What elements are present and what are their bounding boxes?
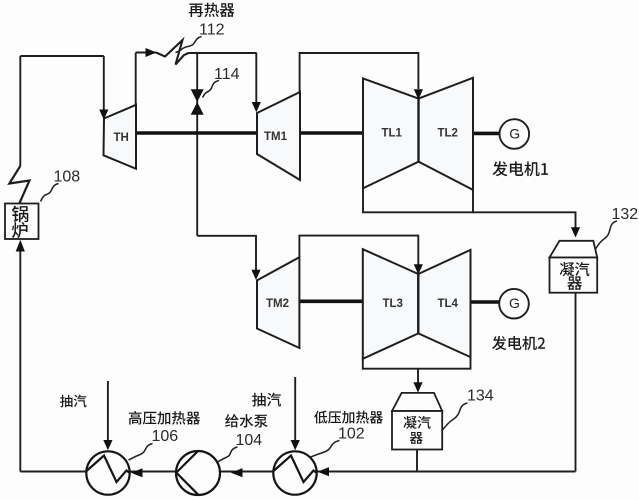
turbine TH <box>104 105 137 169</box>
turbine TM1 <box>257 92 300 180</box>
wire extraction steam arrow line right <box>294 377 296 441</box>
label 凝汽 <box>560 262 590 276</box>
leader 134 <box>443 403 468 430</box>
heater 102 zigzag <box>274 456 317 483</box>
label 再热器 <box>189 3 235 18</box>
arrow into condenser 132 <box>571 227 580 237</box>
heater 106 circle <box>86 451 129 494</box>
turbine TL4 <box>418 250 470 357</box>
svg-text:TL3: TL3 <box>383 298 403 310</box>
leader 106 <box>129 444 153 461</box>
label 凝汽 <box>404 416 431 429</box>
arrow extraction into heater 102 <box>291 440 300 450</box>
label 抽汽 <box>252 393 281 407</box>
wire left vertical from boiler riser <box>19 56 21 166</box>
arrow into TL3/TL4 waist <box>414 264 423 274</box>
leader 132 <box>596 221 618 249</box>
leader squiggles <box>41 37 618 463</box>
turbine TM2 <box>257 257 299 348</box>
svg-text:114: 114 <box>214 66 240 83</box>
heater 106 zigzag <box>87 456 130 483</box>
generator G1 circle <box>500 119 530 149</box>
turbine TL1 <box>363 78 419 188</box>
arrow extraction into heater 106 <box>103 440 112 450</box>
svg-text:G: G <box>509 295 520 311</box>
pump 104 circle <box>176 451 220 495</box>
arrow feedwater into heater 106 <box>131 468 143 477</box>
wire condenser134 outlet <box>416 450 418 472</box>
svg-text:108: 108 <box>54 169 81 186</box>
arrow into TM2 <box>251 270 260 280</box>
label 发电机1 <box>492 161 548 176</box>
wire extraction steam arrow line left <box>107 381 109 441</box>
shaft turbine-generator 1 (thick) <box>136 131 500 135</box>
arrow into condenser 134 <box>413 382 422 392</box>
label 发电机2 <box>492 336 545 350</box>
wire riser TH exhaust to reheater <box>135 53 137 105</box>
wire bottom feedwater line <box>20 471 575 473</box>
wire drop into TH <box>103 56 105 111</box>
wire feedwater up to boiler <box>19 251 21 472</box>
boiler 108 box <box>5 204 39 240</box>
wire valve branch vertical <box>196 53 198 236</box>
wire TM1 exhaust riser <box>300 53 419 92</box>
leader 104 <box>218 447 238 462</box>
valve 114 <box>191 89 204 115</box>
arrow into TL1/TL2 waist <box>414 89 423 99</box>
arrow up into boiler <box>16 240 25 252</box>
leader 114 <box>203 81 220 98</box>
wire main steam top-left horizontal <box>20 55 104 57</box>
pump 104 chords <box>176 451 198 495</box>
svg-text:112: 112 <box>199 22 225 39</box>
label 锅 <box>12 206 28 223</box>
svg-text:G: G <box>509 125 520 141</box>
leader 102 <box>310 441 340 458</box>
svg-text:104: 104 <box>236 432 263 449</box>
exhaust hood TL3/TL4 <box>363 357 471 369</box>
arrow feedwater into pump 104 <box>231 468 243 477</box>
arrow on reheat line <box>146 48 157 57</box>
generator G letters <box>509 125 520 311</box>
svg-text:TL4: TL4 <box>438 298 459 310</box>
heater 102 circle <box>273 451 316 494</box>
svg-text:106: 106 <box>152 428 179 445</box>
turbine TL2 <box>419 78 474 190</box>
condenser 134 <box>392 393 442 450</box>
svg-text:TH: TH <box>114 132 129 144</box>
svg-text:TL2: TL2 <box>438 128 458 140</box>
TL3/TL4 waist line <box>417 274 419 333</box>
label 器 <box>567 276 582 290</box>
reference numerals (serif) <box>54 22 639 450</box>
label 给水泵 <box>225 414 268 427</box>
wire TM2 exhaust riser <box>299 236 418 265</box>
wire reheat drop into TM1 <box>255 53 257 104</box>
label 抽汽 <box>60 395 87 408</box>
component letter labels <box>114 128 459 311</box>
leader 112 <box>176 37 202 53</box>
exhaust hood TL1/TL2 <box>363 188 473 212</box>
arrowheads <box>16 48 580 477</box>
wire zigzag above boiler <box>9 166 29 204</box>
svg-text:132: 132 <box>612 206 639 223</box>
reheater zigzag symbol 112 <box>156 40 256 65</box>
svg-text:TM2: TM2 <box>266 298 289 310</box>
leader 108 <box>41 184 59 202</box>
arrow feedwater into heater 102 <box>318 467 330 476</box>
TL1/TL2 waist line <box>417 99 419 162</box>
wire TL2 exhaust to condenser132 <box>473 212 576 228</box>
shaft turbine-generator 2 (thick) <box>299 299 500 303</box>
wire reheat line left part <box>136 52 156 54</box>
arrow into TM1 <box>252 102 261 112</box>
label 器 <box>410 432 423 444</box>
svg-text:102: 102 <box>338 426 365 443</box>
condenser 132 <box>550 241 598 293</box>
label 高压加热器 <box>129 411 200 425</box>
label 炉 <box>12 222 28 238</box>
arrow into TH <box>99 110 108 120</box>
wire cold reheat to TM2 <box>197 236 256 271</box>
wire TL3/4 exhaust to condenser134 <box>417 369 419 384</box>
svg-text:TL1: TL1 <box>382 128 403 140</box>
generator G2 circle <box>499 289 529 319</box>
label 低压加热器 <box>314 411 383 424</box>
svg-text:TM1: TM1 <box>264 131 288 143</box>
svg-text:134: 134 <box>467 388 494 405</box>
wire right vertical condenser132 outlet <box>575 293 577 472</box>
turbine TL3 <box>363 249 419 359</box>
